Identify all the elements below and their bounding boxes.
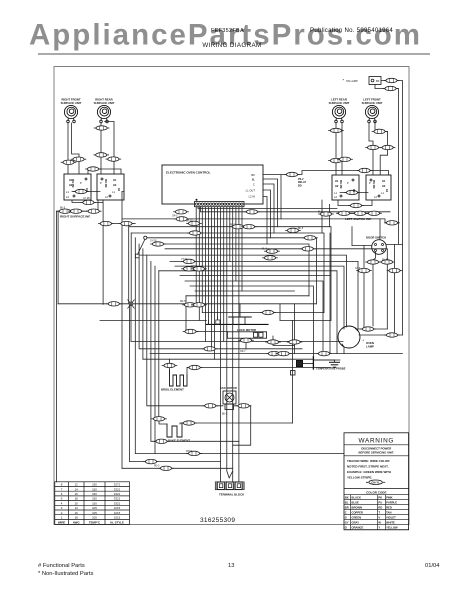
- wire EOC pin drop 13: [235, 207, 237, 281]
- wire left front unit right lead: [375, 122, 388, 176]
- wire EOC pin drop 0: [195, 207, 197, 304]
- wire left switch drop a: [321, 200, 323, 233]
- svg-text:105: 105: [92, 516, 97, 520]
- wire ladder H12: [159, 271, 337, 354]
- wire ladder H11: [175, 266, 344, 329]
- wire door switch C feed: [379, 219, 381, 240]
- svg-text:WARNING: WARNING: [359, 437, 395, 444]
- wire ladder H10: [170, 261, 358, 329]
- svg-text:BL: BL: [345, 501, 349, 505]
- bake element: [167, 423, 182, 437]
- wire bus H20: [100, 319, 206, 321]
- svg-text:VT-52: VT-52: [181, 259, 188, 261]
- wire ladder H13: [180, 275, 330, 277]
- wire link between right switch tops: [88, 169, 121, 174]
- wire EOC BL out: [263, 179, 278, 227]
- wire bake left feed: [159, 421, 167, 427]
- svg-text:3321: 3321: [114, 487, 121, 491]
- svg-text:G: G: [345, 516, 347, 520]
- svg-text:LAMP: LAMP: [366, 345, 374, 349]
- wire bundle vertical c: [135, 238, 344, 454]
- relay arm contact square: [136, 254, 140, 258]
- svg-text:RED: RED: [386, 506, 392, 510]
- wire broil right out: [187, 368, 331, 376]
- svg-text:PINK: PINK: [386, 496, 392, 500]
- wire left switches link H1: [340, 192, 368, 194]
- svg-text:PK: PK: [378, 496, 382, 500]
- svg-text:ON LAMP: ON LAMP: [346, 79, 358, 83]
- wire door left feed: [351, 227, 353, 246]
- svg-text:BK: BK: [376, 79, 380, 83]
- svg-text:18: 18: [75, 497, 79, 501]
- wire main bus H18: [58, 304, 316, 321]
- switch box internal markings: [72, 178, 389, 192]
- svg-text:P2: P2: [118, 187, 121, 191]
- svg-text:150: 150: [92, 492, 97, 496]
- svg-text:WIRE: WIRE: [58, 520, 66, 524]
- svg-text:WH-5: WH-5: [186, 451, 193, 453]
- wire door bottom left drop: [373, 252, 376, 326]
- broil element: [170, 370, 188, 386]
- svg-text:YELLOW STRIPE.: YELLOW STRIPE.: [347, 475, 373, 479]
- svg-text:COLOR CODE: COLOR CODE: [366, 491, 386, 495]
- wire bundle vertical g: [151, 261, 239, 441]
- svg-text:SURFACE UNIT: SURFACE UNIT: [94, 101, 115, 105]
- wire bundle vertical f: [147, 255, 223, 406]
- wire fan right out: [233, 406, 251, 445]
- wire ladder H17: [186, 295, 309, 297]
- terminal block: [215, 482, 244, 490]
- svg-text:BD: BD: [298, 184, 302, 187]
- svg-text:GREEN: GREEN: [352, 516, 362, 520]
- wire EOC pin drop 6: [214, 207, 216, 359]
- switch box right front: [64, 174, 91, 200]
- svg-text:# Functional Parts: # Functional Parts: [38, 563, 85, 569]
- wire left switch drop b: [328, 204, 330, 226]
- svg-text:4: 4: [61, 501, 63, 505]
- svg-text:L2: L2: [374, 195, 377, 199]
- svg-text:L2 IN: L2 IN: [249, 195, 255, 199]
- svg-text:GRAY: GRAY: [352, 521, 360, 525]
- wire EOC pin drop 14: [238, 207, 240, 482]
- svg-text:P2: P2: [353, 188, 356, 192]
- wire lamp right drop: [294, 304, 296, 354]
- svg-text:INF SW: INF SW: [340, 179, 343, 188]
- svg-text:12: 12: [75, 483, 79, 487]
- wire pin right exit b: [201, 207, 391, 212]
- svg-text:BL-5: BL-5: [318, 212, 324, 214]
- wire long left vertical to table: [56, 211, 58, 482]
- svg-text:TAN: TAN: [386, 511, 391, 515]
- svg-text:SURFACE UNIT: SURFACE UNIT: [329, 101, 350, 105]
- wire bundle vertical e: [142, 249, 144, 359]
- oven ON lamp box: [369, 77, 381, 85]
- wire EOC pin drop 9: [223, 207, 225, 341]
- svg-text:W: W: [378, 521, 381, 525]
- svg-text:16: 16: [75, 511, 79, 515]
- svg-text:ELECTRONIC OVEN CONTROL: ELECTRONIC OVEN CONTROL: [166, 171, 211, 175]
- wire right rear unit right lead: [105, 122, 114, 175]
- svg-text:VIOLET: VIOLET: [386, 516, 396, 520]
- svg-text:3271: 3271: [114, 483, 121, 487]
- wire bus H341: [131, 340, 343, 342]
- wire box2 bottom drop: [102, 202, 104, 304]
- svg-text:L1: L1: [334, 191, 337, 195]
- svg-text:150: 150: [92, 501, 97, 505]
- junction node B circle with cross: [129, 302, 133, 306]
- connector ovals: [57, 78, 402, 470]
- svg-text:L2: L2: [66, 195, 69, 199]
- wire oven lamp feed b: [375, 85, 399, 245]
- svg-text:RD: RD: [378, 506, 382, 510]
- svg-text:GY: GY: [345, 521, 349, 525]
- wire box2 right drop: [122, 192, 124, 469]
- svg-text:*: *: [343, 78, 345, 83]
- svg-text:TRACER WIRE: WIRE COLOR: TRACER WIRE: WIRE COLOR: [347, 459, 390, 463]
- svg-text:BL: BL: [252, 178, 256, 182]
- wire EOC pin drop 7: [217, 207, 219, 320]
- wire ladder H16: [195, 290, 295, 292]
- svg-text:BR-52: BR-52: [186, 221, 193, 223]
- wire left feed row: [57, 200, 99, 211]
- svg-text:3321: 3321: [114, 492, 121, 496]
- wire EOC pin drop 1: [198, 207, 200, 320]
- svg-text:01/04: 01/04: [425, 563, 440, 569]
- svg-text:H2: H2: [335, 184, 339, 188]
- svg-text:16: 16: [75, 492, 79, 496]
- wire bundle vertical b: [130, 233, 132, 304]
- wire EOC L1 out: [263, 190, 271, 238]
- svg-text:LOCK MOTOR: LOCK MOTOR: [237, 328, 256, 332]
- wire EOC pin drop 11: [229, 207, 231, 261]
- wire ladder H2: [122, 219, 399, 223]
- svg-text:P: P: [347, 181, 349, 185]
- color code table: [344, 488, 409, 490]
- wire ladder H3: [103, 223, 135, 225]
- svg-text:INF SW: INF SW: [72, 178, 75, 187]
- wire link right switches bottoms: [72, 200, 103, 202]
- svg-text:INF SW: INF SW: [105, 178, 108, 187]
- wire broil top feed: [169, 359, 171, 374]
- wire lamp bottom: [343, 347, 345, 353]
- svg-text:1015: 1015: [114, 511, 121, 515]
- svg-text:O: O: [345, 526, 347, 530]
- svg-text:BROIL ELEMENT: BROIL ELEMENT: [161, 388, 184, 392]
- svg-text:L1: L1: [66, 190, 69, 194]
- svg-text:BLUE: BLUE: [352, 501, 360, 505]
- svg-text:BK-5: BK-5: [298, 228, 304, 230]
- wire ladder H15: [190, 286, 313, 357]
- svg-text:TEMP°C: TEMP°C: [89, 520, 101, 524]
- oven lamp bulb: [338, 326, 360, 348]
- wire EOC pin drop 2: [201, 207, 203, 313]
- svg-text:3: 3: [61, 506, 63, 510]
- svg-text:1015: 1015: [114, 506, 121, 510]
- electronic oven control box U1: [162, 165, 263, 204]
- EOC pin strip connector: [195, 199, 245, 207]
- svg-text:WIRING DIAGRAM: WIRING DIAGRAM: [202, 42, 261, 49]
- wire probe right line: [313, 359, 334, 361]
- wire second left vertical to bus: [57, 211, 59, 304]
- svg-text:GY-2B: GY-2B: [83, 198, 90, 200]
- svg-text:SURFACE UNIT: SURFACE UNIT: [362, 101, 383, 105]
- svg-text:* Non-Ilustrated Parts: * Non-Ilustrated Parts: [38, 571, 94, 577]
- svg-text:OR-7: OR-7: [240, 351, 246, 353]
- wire oven lamp feed a: [381, 81, 403, 336]
- wire left switches bottom link: [338, 200, 372, 206]
- svg-text:BEFORE SERVICING UNIT.: BEFORE SERVICING UNIT.: [359, 450, 395, 454]
- svg-text:1: 1: [61, 516, 63, 520]
- wire bus H353: [150, 353, 403, 355]
- svg-text:OR-5: OR-5: [172, 216, 178, 218]
- svg-text:COPPER: COPPER: [352, 511, 363, 515]
- wire EOC C out: [263, 184, 274, 233]
- svg-text:18: 18: [75, 516, 79, 520]
- svg-text:WHITE: WHITE: [386, 521, 395, 525]
- surface unit right front coil: [64, 105, 77, 122]
- svg-text:FEF352FBA: FEF352FBA: [211, 28, 244, 34]
- svg-text:Publication No. 5995401964: Publication No. 5995401964: [310, 27, 393, 34]
- svg-text:YELLOW: YELLOW: [386, 526, 398, 530]
- wire ladder H6 with relay junction: [145, 238, 316, 304]
- svg-text:H2: H2: [382, 184, 386, 188]
- wire bus H359: [143, 358, 314, 360]
- wire door drop via oval a: [363, 246, 365, 330]
- wire door drop via oval b: [394, 244, 396, 335]
- svg-text:GY-28: GY-28: [150, 241, 157, 243]
- svg-text:INF SW: INF SW: [373, 179, 376, 188]
- svg-text:DOOR SWITCH: DOOR SWITCH: [366, 236, 386, 240]
- wire ladder H7: [160, 244, 309, 296]
- wire lock box left feed: [186, 296, 227, 332]
- svg-text:GY-5: GY-5: [355, 268, 361, 270]
- wire ladder H5: [131, 233, 324, 313]
- svg-text:BR: BR: [345, 506, 349, 510]
- GN-YL tracer example connector: [369, 480, 383, 485]
- surface unit left rear coil: [332, 105, 345, 122]
- svg-text:P: P: [100, 181, 102, 185]
- switch box left rear: [332, 175, 359, 200]
- wire ladder H14: [185, 281, 323, 353]
- svg-text:H1: H1: [382, 179, 386, 183]
- wire ladder H8: [165, 249, 387, 329]
- wire lock box bottom drop: [245, 338, 247, 349]
- svg-text:105: 105: [92, 506, 97, 510]
- wire EOC pin drop 12: [232, 207, 234, 482]
- wire bus H20b: [280, 319, 331, 321]
- svg-text:BAKE ELEMENT: BAKE ELEMENT: [168, 439, 190, 443]
- wire ladder H9: [139, 255, 347, 327]
- svg-text:RD-7: RD-7: [230, 225, 236, 227]
- svg-text:V: V: [378, 516, 380, 520]
- svg-text:FAN MOTOR: FAN MOTOR: [220, 386, 237, 390]
- svg-text:7: 7: [61, 487, 63, 491]
- svg-text:P: P: [369, 181, 371, 185]
- svg-text:*: *: [363, 338, 365, 343]
- svg-text:BROWN: BROWN: [352, 506, 363, 510]
- wire right front unit left lead: [67, 123, 69, 174]
- wire junction drop: [130, 304, 132, 342]
- svg-text:EXAMPLE: GREEN WIRE WITH: EXAMPLE: GREEN WIRE WITH: [347, 470, 391, 474]
- svg-text:RD-5: RD-5: [154, 466, 160, 468]
- svg-text:BK: BK: [251, 173, 255, 177]
- connector code labels: [60, 198, 389, 468]
- wire EOC pin drop 15: [241, 207, 243, 291]
- svg-text:H1: H1: [335, 179, 339, 183]
- wire right rear unit left lead: [100, 123, 102, 174]
- svg-text:150: 150: [92, 497, 97, 501]
- wire right front unit right lead: [72, 123, 79, 174]
- svg-text:TERMINAL BLOCK: TERMINAL BLOCK: [219, 493, 244, 497]
- svg-text:BLACK: BLACK: [352, 496, 361, 500]
- svg-text:150: 150: [92, 487, 97, 491]
- lock connector small box: [216, 320, 220, 324]
- svg-text:2: 2: [61, 511, 63, 515]
- svg-text:H1: H1: [113, 178, 117, 182]
- svg-text:BL-5: BL-5: [262, 249, 268, 251]
- wire bundle vertical a: [128, 227, 130, 304]
- wire gauge table: [55, 482, 130, 525]
- svg-text:1015: 1015: [114, 516, 121, 520]
- svg-text:105: 105: [92, 511, 97, 515]
- svg-text:8: 8: [61, 483, 63, 487]
- wire left rear unit right lead: [341, 123, 343, 175]
- wire bus lamp right: [359, 334, 403, 336]
- wire pin right exit a: [198, 207, 337, 209]
- wire bundle vertical i: [158, 271, 160, 417]
- svg-text:RIGHT SURFACE INF.: RIGHT SURFACE INF.: [60, 215, 91, 219]
- wire link right switches H1: [72, 191, 100, 193]
- wire door left lead: [352, 245, 372, 247]
- svg-text:L2: L2: [334, 195, 337, 199]
- svg-text:P2: P2: [86, 187, 89, 191]
- svg-text:AWG: AWG: [73, 520, 81, 524]
- svg-text:C: C: [253, 183, 255, 187]
- warning box: [344, 433, 409, 530]
- svg-text:P: P: [80, 181, 82, 185]
- svg-text:3321: 3321: [114, 501, 121, 505]
- wire left front unit left lead: [369, 123, 373, 175]
- svg-text:150: 150: [92, 483, 97, 487]
- ground symbol chassis: [334, 360, 336, 362]
- wire EOC pin drop 4: [207, 207, 209, 324]
- svg-text:5: 5: [61, 497, 63, 501]
- wire EOC L2 in: [263, 197, 267, 245]
- wire left switch oval row: [337, 212, 380, 214]
- svg-text:14: 14: [75, 506, 79, 510]
- svg-text:L2: L2: [105, 195, 108, 199]
- svg-text:ORANGE: ORANGE: [352, 526, 364, 530]
- svg-text:13: 13: [228, 563, 234, 569]
- wire terminal bus low: [122, 467, 233, 469]
- wire bundle vertical h: [154, 266, 156, 454]
- svg-text:3321: 3321: [114, 497, 121, 501]
- wire EOC pin drop 3: [204, 207, 206, 341]
- wire left rear unit left lead: [335, 123, 337, 175]
- wire lamp neutral drop: [329, 233, 331, 354]
- svg-text:C: C: [345, 511, 347, 515]
- lock motor assembly: [229, 316, 251, 318]
- wire EOC pin drop 10: [227, 207, 233, 478]
- wire bus to terminal left: [130, 304, 221, 462]
- svg-text:BK-55: BK-55: [382, 260, 389, 262]
- svg-text:WH-5: WH-5: [191, 266, 198, 268]
- junction node A circle: [144, 236, 147, 239]
- wire lock bracket riser a: [207, 320, 209, 324]
- wire bundle vertical d: [139, 244, 302, 349]
- wire bake right out: [180, 423, 293, 424]
- wire bus lamp top: [356, 328, 387, 330]
- wire EOC BK out: [263, 171, 389, 219]
- header rule: [38, 53, 430, 55]
- switch box left front: [366, 175, 391, 200]
- svg-text:P2: P2: [386, 188, 389, 192]
- svg-text:GN-YL: GN-YL: [371, 480, 380, 484]
- wire lock box right drop: [273, 336, 295, 345]
- svg-text:BK-5: BK-5: [222, 414, 228, 416]
- svg-text:PU: PU: [378, 501, 382, 505]
- surface unit right rear coil: [97, 105, 110, 122]
- svg-text:L1: L1: [381, 191, 384, 195]
- wire lock connector riser: [217, 316, 219, 320]
- svg-text:L1 OUT: L1 OUT: [246, 189, 256, 193]
- wire bus H19: [202, 312, 324, 314]
- wire EOC pin drop 8 to terminal block: [220, 207, 222, 482]
- svg-text:L1: L1: [112, 190, 115, 194]
- svg-text:6: 6: [61, 492, 63, 496]
- svg-text:BK-5: BK-5: [60, 208, 66, 210]
- svg-text:NOTED FIRST, STRIPE NEXT.: NOTED FIRST, STRIPE NEXT.: [347, 464, 389, 468]
- svg-text:20: 20: [75, 501, 79, 505]
- svg-text:UL STYLE: UL STYLE: [110, 520, 124, 524]
- wire door right lead: [387, 243, 403, 245]
- wire EOC pin drop 5: [211, 207, 213, 350]
- svg-text:SURFACE UNIT: SURFACE UNIT: [61, 101, 82, 105]
- wire probe drop: [292, 320, 294, 423]
- svg-text:PURPLE: PURPLE: [386, 501, 397, 505]
- wire lock bracket feed: [239, 304, 241, 317]
- wire ladder H4: [129, 227, 331, 321]
- svg-text:Y: Y: [378, 526, 380, 530]
- svg-text:14: 14: [75, 487, 79, 491]
- svg-text:RD-5: RD-5: [180, 301, 186, 303]
- switch box right rear: [97, 174, 124, 200]
- svg-text:BK: BK: [345, 496, 349, 500]
- surface unit left front coil: [365, 105, 378, 122]
- svg-text:H2: H2: [113, 183, 117, 187]
- diagram outer border: [54, 67, 409, 525]
- svg-text:316255309: 316255309: [200, 517, 235, 524]
- temperature probe: [297, 361, 303, 367]
